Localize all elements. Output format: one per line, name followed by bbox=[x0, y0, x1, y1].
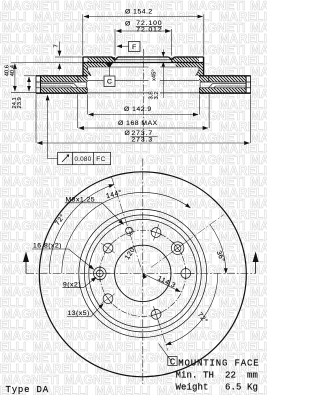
leader 9(x2) bbox=[62, 277, 96, 288]
bolt circle (chain) bbox=[100, 230, 186, 316]
bolt hole 13(x5) at -54deg bbox=[97, 238, 118, 259]
svg-text:40.4: 40.4 bbox=[10, 64, 16, 76]
ring top band hatch (left) bbox=[41, 76, 79, 82]
counterbored hole 9/16.8 at -90deg bbox=[90, 265, 110, 281]
outer circle bbox=[39, 172, 246, 377]
svg-text:FC: FC bbox=[96, 156, 106, 163]
svg-text:x45°: x45° bbox=[151, 69, 157, 81]
hat plate hatch (right) bbox=[172, 57, 199, 63]
hat circle bbox=[84, 215, 201, 332]
ring bottom band hatch (right) bbox=[199, 88, 246, 93]
svg-text:Ø: Ø bbox=[125, 20, 131, 27]
36deg angular dimension arc right bbox=[210, 225, 226, 274]
centerline of section bbox=[142, 49, 144, 143]
svg-text:C: C bbox=[170, 357, 176, 367]
dimension Ø273.7/273.3 bbox=[36, 94, 251, 143]
dimension 24.1/23.9 bbox=[24, 76, 36, 91]
vent vane lines right bbox=[209, 84, 247, 88]
outlines bbox=[36, 57, 251, 94]
ring top band hatch (right) bbox=[209, 76, 247, 82]
72deg angular dimension arc upper-left bbox=[49, 185, 114, 274]
hub bore bbox=[115, 245, 171, 301]
bolt hole 13(x5) at +18deg bbox=[147, 222, 165, 242]
hat top surface bbox=[83, 56, 204, 58]
svg-text:9(x2): 9(x2) bbox=[63, 282, 81, 289]
datum box F bbox=[117, 42, 140, 52]
datum triangle bbox=[106, 63, 113, 68]
svg-text:Ø 154.2: Ø 154.2 bbox=[125, 9, 153, 16]
ring inner edges bbox=[78, 76, 209, 93]
vertical centerline bbox=[142, 159, 144, 385]
dimension Ø154.2 bbox=[83, 14, 204, 55]
bolt hole 13(x5) at +162deg bbox=[147, 304, 165, 324]
hat plate hatch (left) bbox=[88, 57, 115, 63]
section cut arrows bbox=[25, 262, 27, 273]
axis of hole at +54 extended bbox=[151, 215, 224, 268]
svg-text:MOUNTING FACE: MOUNTING FACE bbox=[178, 358, 259, 368]
runout symbol arrow bbox=[62, 155, 69, 162]
hat inner ledge bbox=[88, 66, 199, 68]
svg-text:23.9: 23.9 bbox=[17, 97, 23, 108]
bottom band top lines bbox=[36, 87, 251, 89]
bore see-through chamfer line bbox=[115, 59, 172, 61]
inner ring circle bbox=[89, 219, 197, 327]
72deg angular dimension arc lower-right bbox=[166, 273, 218, 344]
ring bottom surface bbox=[36, 92, 251, 94]
svg-text:3.2: 3.2 bbox=[154, 91, 160, 99]
leader M8x1.25 bbox=[65, 203, 124, 225]
hat wall inner verticals bbox=[88, 67, 199, 70]
ring OD edges bbox=[36, 76, 251, 94]
svg-text:Weight 6.5 Kg: Weight 6.5 Kg bbox=[176, 383, 259, 393]
mounting face leader bbox=[159, 344, 172, 361]
junction block hatch (right) bbox=[199, 76, 209, 82]
svg-text:Ø 142.9: Ø 142.9 bbox=[124, 106, 152, 113]
svg-text:F: F bbox=[132, 44, 137, 51]
svg-text:7: 7 bbox=[54, 44, 60, 47]
horizontal centerline bbox=[26, 272, 256, 274]
chamfer dim 3.8/3.2 x45 bbox=[160, 50, 167, 99]
friction inner circle bbox=[79, 209, 207, 337]
leader 16.8(x2) bbox=[32, 249, 94, 269]
counterbored hole 9/16.8 at +54deg bbox=[165, 236, 191, 261]
svg-text:M8x1.25: M8x1.25 bbox=[66, 196, 96, 203]
svg-text:Min. TH 22 mm: Min. TH 22 mm bbox=[176, 370, 259, 380]
svg-text:13(x5): 13(x5) bbox=[68, 310, 90, 317]
svg-text:16.8(x2): 16.8(x2) bbox=[33, 243, 62, 250]
bolt hole 13(x5) at +90deg bbox=[177, 267, 194, 280]
top band inner lines bbox=[36, 81, 251, 83]
dimension 7 (hat thickness) bbox=[55, 42, 84, 71]
radial dim 114.3 bbox=[143, 273, 181, 291]
svg-text:C: C bbox=[107, 79, 112, 86]
svg-text:Ø 168 MAX: Ø 168 MAX bbox=[118, 120, 158, 127]
axis of hole at +162 extended bbox=[154, 307, 168, 351]
interior see-through line bbox=[88, 80, 199, 82]
threaded hole M8x1.25 at -18deg r45 bbox=[107, 175, 145, 271]
OD inner band lines bbox=[41, 76, 247, 93]
144deg angular dimension arc bbox=[62, 192, 191, 273]
bore walls bbox=[115, 60, 172, 63]
hat plate underside bbox=[83, 62, 204, 64]
wall base flare edges bbox=[88, 70, 199, 76]
dimension Ø168 MAX bbox=[78, 94, 210, 128]
svg-text:Type DA: Type DA bbox=[6, 385, 49, 395]
dimension 40.6/40.4 bbox=[11, 63, 83, 93]
hat rim verticals bbox=[83, 57, 204, 76]
dimension Ø142.9 bbox=[87, 94, 199, 114]
svg-text:Ø: Ø bbox=[125, 130, 131, 137]
hat wall hatch (right) bbox=[199, 63, 204, 76]
svg-text:0.080: 0.080 bbox=[74, 156, 91, 163]
hat wall hatch (left) bbox=[83, 63, 88, 76]
dimension Ø72.100/72.012 bbox=[115, 26, 172, 55]
leader 13(x5) bbox=[67, 304, 103, 317]
datum C with triangle bbox=[104, 68, 115, 87]
vent vane lines left bbox=[41, 84, 79, 88]
junction block hatch (left) bbox=[78, 76, 88, 82]
bore chamfers bbox=[112, 57, 175, 60]
svg-text:273.3: 273.3 bbox=[132, 136, 154, 143]
ring top surface bbox=[36, 75, 251, 77]
svg-text:72.012: 72.012 bbox=[136, 27, 162, 34]
ring bottom band hatch (left) bbox=[41, 88, 88, 93]
boxed C bbox=[168, 357, 177, 366]
runout feature control frame bbox=[48, 95, 111, 165]
bolt hole 13(x5) at -126deg bbox=[97, 288, 118, 309]
